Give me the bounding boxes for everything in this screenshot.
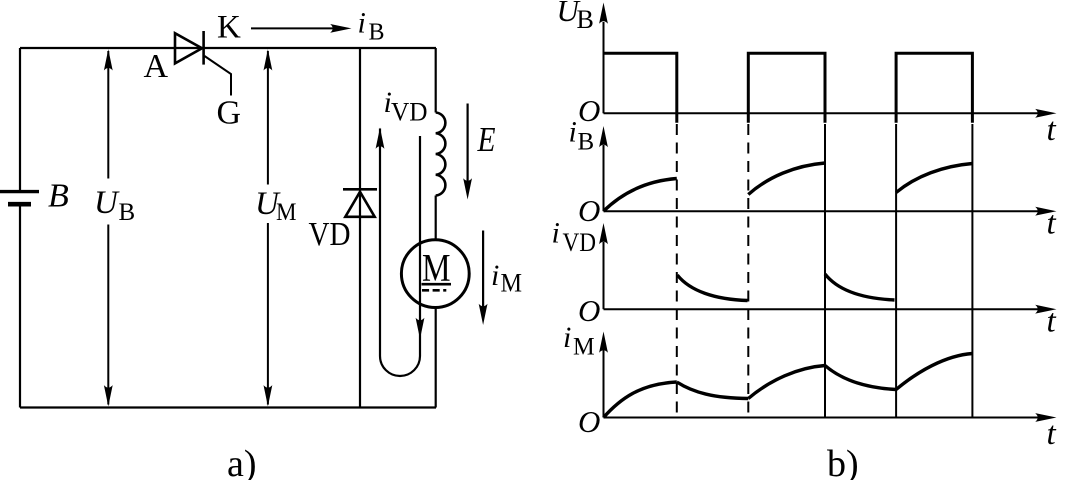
current arrow iB head (330, 24, 351, 33)
svg-text:K: K (217, 9, 241, 45)
waveform iVD decay 2 (825, 274, 895, 300)
svg-text:t: t (1047, 206, 1057, 242)
waveform UB pulse 3 (896, 53, 972, 123)
voltage arrow UM head up (264, 49, 273, 70)
axis iB vertical (603, 145, 605, 211)
voltage arrow UB line (107, 51, 109, 405)
svg-text:B: B (369, 19, 385, 45)
wire coil branch upper (435, 48, 437, 113)
waveform iVD decay 1 (677, 275, 747, 301)
waveform iB rise 3 (896, 164, 972, 193)
svg-text:i: i (552, 217, 560, 250)
current arrow iM head (479, 304, 488, 325)
svg-text:M: M (276, 199, 297, 226)
svg-text:B: B (578, 128, 595, 155)
axis iB horizontal (604, 210, 1039, 212)
motor M circle (401, 240, 469, 308)
svg-text:M: M (573, 331, 595, 360)
inductor winding E (436, 113, 446, 196)
diode VD cathode bar (343, 188, 377, 191)
wire left rail upper (19, 48, 21, 190)
wire coil to motor (435, 196, 437, 241)
svg-text:a): a) (227, 443, 257, 480)
voltage arrow UB head up (104, 49, 113, 70)
waveform iM segment rise 2 (748, 366, 825, 399)
svg-text:i: i (569, 115, 577, 148)
svg-text:B: B (577, 5, 594, 34)
svg-text:i: i (358, 7, 366, 40)
current arrow iVD head up (376, 128, 385, 149)
wire diode branch vertical (359, 48, 361, 408)
axis UB horizontal (604, 112, 1039, 114)
svg-text:VD: VD (563, 228, 597, 257)
svg-text:b): b) (827, 443, 859, 480)
svg-text:B: B (119, 199, 136, 226)
thyristor V cathode bar (202, 31, 205, 65)
axis iM vertical (603, 350, 605, 418)
axis iM horizontal (604, 417, 1039, 419)
axis iVD horizontal (604, 308, 1039, 310)
waveform iM segment rise 1 (604, 382, 677, 418)
guide line dashed t2 (747, 124, 749, 418)
waveform UB pulse 1 (604, 53, 677, 123)
guide line solid t5 (971, 124, 973, 418)
current arrow loop head down (416, 318, 425, 339)
waveform iM segment rise 3 (896, 354, 972, 390)
waveform iB rise 2 (748, 163, 825, 195)
wire top rail (20, 47, 436, 49)
waveform iM segment decay 2 (825, 366, 896, 390)
svg-text:t: t (1047, 112, 1057, 148)
battery B plate short (8, 202, 31, 207)
guide line solid t3 (824, 124, 826, 418)
svg-text:t: t (1047, 416, 1057, 452)
svg-text:O: O (578, 293, 600, 328)
thyristor V anode triangle (175, 33, 202, 63)
svg-text:i: i (491, 259, 499, 292)
waveform UB pulse 2 (748, 53, 825, 123)
waveform iM segment decay 1 (677, 382, 749, 399)
svg-text:O: O (578, 404, 600, 439)
motor symbol solid line (422, 283, 452, 286)
svg-text:i: i (563, 321, 571, 354)
wire bottom rail (20, 406, 436, 408)
emf arrow E head (463, 178, 472, 199)
motor symbol dashed line (422, 289, 446, 292)
current arrow iB line (251, 27, 337, 29)
waveform iB rise 1 (604, 179, 677, 212)
wire motor to bottom rail (435, 307, 437, 408)
diode VD triangle (345, 192, 374, 217)
svg-text:VD: VD (391, 97, 428, 126)
voltage arrow UM head down (264, 385, 273, 406)
svg-text:M: M (501, 269, 523, 298)
guide line solid t4 (895, 124, 897, 418)
voltage arrow UB head down (104, 385, 113, 406)
svg-text:A: A (144, 48, 169, 85)
svg-text:G: G (217, 94, 242, 131)
freewheel loop wire with U-turn (380, 129, 420, 377)
svg-text:B: B (48, 178, 69, 215)
svg-text:O: O (578, 193, 600, 228)
guide line dashed t1 (676, 124, 678, 418)
thyristor V gate lead (205, 56, 232, 96)
svg-text:U: U (94, 185, 120, 221)
battery B plate long (0, 190, 39, 193)
svg-text:t: t (1047, 304, 1057, 340)
svg-text:O: O (578, 93, 600, 128)
axis iVD vertical (603, 242, 605, 309)
axis UB vertical (603, 22, 605, 113)
emf arrow E line (467, 104, 469, 185)
voltage arrow UM line (267, 51, 269, 405)
current arrow iM line (482, 231, 484, 311)
svg-text:VD: VD (309, 216, 351, 253)
svg-text:E: E (477, 120, 496, 159)
wire left rail lower (19, 206, 21, 408)
